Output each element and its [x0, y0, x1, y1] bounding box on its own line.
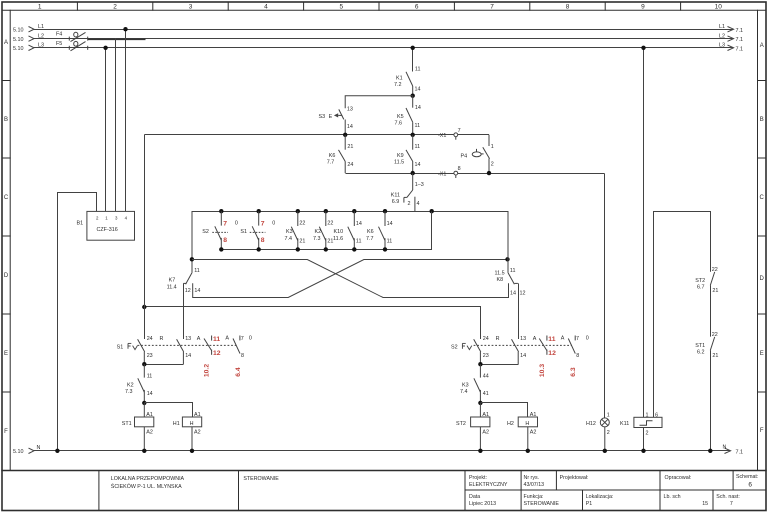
contact K1 7.2 — [406, 72, 413, 96]
svg-text:14: 14 — [415, 87, 421, 93]
svg-text:K2: K2 — [315, 229, 322, 235]
wire crossover W2 — [193, 260, 508, 298]
svg-text:7: 7 — [490, 4, 494, 11]
wire L3 — [34, 47, 733, 49]
node ST1 branch — [142, 401, 146, 405]
svg-text:15: 15 — [702, 501, 708, 507]
node P4-bus2 — [487, 171, 491, 175]
switch S2 contact 24-23 R — [474, 339, 481, 364]
lamp H12 — [600, 418, 609, 451]
svg-text:N: N — [723, 444, 727, 450]
svg-text:ELEKTRYCZNY: ELEKTRYCZNY — [469, 482, 508, 488]
node bus4 K6col — [383, 247, 387, 251]
switch S1 contact 13-14 A — [145, 339, 184, 364]
wire to S3 branch — [345, 96, 413, 109]
node K7 top — [190, 257, 194, 261]
svg-text:7.1: 7.1 — [736, 28, 744, 34]
svg-text:K3: K3 — [462, 382, 469, 388]
svg-text:1: 1 — [646, 412, 649, 418]
svg-text:A2: A2 — [194, 430, 201, 436]
svg-text:14: 14 — [347, 124, 353, 130]
frame numbers — [38, 4, 722, 11]
svg-text:43/07/13: 43/07/13 — [524, 482, 545, 488]
svg-text:K2: K2 — [127, 382, 134, 388]
svg-text:A: A — [4, 40, 8, 46]
wire bus 4 — [222, 212, 432, 250]
node N K11 — [641, 449, 645, 453]
svg-text:K1: K1 — [396, 76, 403, 82]
svg-text:0: 0 — [586, 335, 589, 341]
svg-text:K11: K11 — [620, 421, 629, 427]
svg-text:11.5: 11.5 — [495, 271, 505, 277]
svg-text:8: 8 — [566, 4, 570, 11]
contact K2 7.3 — [138, 364, 145, 403]
switch S2 linkage — [474, 344, 572, 346]
svg-text:6.9: 6.9 — [392, 199, 400, 205]
contact K8 11.5 changeover — [508, 273, 518, 339]
svg-text:5.10: 5.10 — [13, 28, 24, 34]
svg-text:22: 22 — [712, 332, 718, 338]
svg-text:Funkcja:: Funkcja: — [524, 494, 544, 500]
svg-text:A2: A2 — [482, 430, 489, 436]
svg-text:14: 14 — [194, 288, 200, 294]
svg-text:-X1: -X1 — [438, 171, 446, 177]
node S2 out — [478, 362, 482, 366]
switch P4 — [472, 135, 489, 173]
node bus3 S2col — [219, 209, 223, 213]
svg-text:S3: S3 — [319, 114, 326, 120]
svg-text:K9: K9 — [397, 153, 404, 159]
svg-text:K6: K6 — [329, 153, 336, 159]
svg-text:6.7: 6.7 — [697, 284, 705, 290]
svg-text:A2: A2 — [146, 430, 153, 436]
svg-text:12: 12 — [213, 350, 221, 357]
svg-text:Lipiec 2013: Lipiec 2013 — [469, 501, 496, 507]
svg-text:P1: P1 — [586, 501, 593, 507]
svg-text:22: 22 — [712, 267, 718, 273]
svg-text:3: 3 — [189, 4, 193, 11]
svg-text:L3: L3 — [38, 43, 44, 49]
node N ST1NC — [708, 449, 712, 453]
svg-text:11: 11 — [415, 66, 421, 72]
svg-text:Projektował:: Projektował: — [560, 475, 589, 481]
switch actuator S1 — [128, 343, 137, 349]
node bus4 S2col — [219, 247, 223, 251]
svg-text:6.3: 6.3 — [570, 367, 577, 377]
svg-text:10.2: 10.2 — [204, 364, 211, 377]
svg-text:21: 21 — [347, 144, 353, 150]
svg-text:ST2: ST2 — [456, 421, 466, 427]
switch S1 linkage — [138, 344, 237, 346]
svg-text:24: 24 — [483, 336, 489, 342]
fuse F4 — [69, 32, 87, 41]
node L3 tap K11 — [641, 46, 645, 50]
node bus5 left — [142, 305, 146, 309]
svg-text:6: 6 — [415, 4, 419, 11]
svg-text:7.3: 7.3 — [313, 236, 321, 242]
svg-text:K6: K6 — [367, 229, 374, 235]
svg-text:F: F — [760, 428, 764, 434]
arrow L3 left — [29, 45, 35, 50]
svg-text:H1: H1 — [173, 421, 180, 427]
svg-text:Sch. nast:: Sch. nast: — [716, 494, 740, 500]
svg-text:R: R — [160, 336, 164, 342]
svg-text:5.10: 5.10 — [13, 37, 24, 43]
svg-text:7.1: 7.1 — [736, 46, 744, 52]
svg-text:14: 14 — [185, 353, 191, 359]
contact S2 upper 7-8 — [212, 211, 228, 249]
svg-text:11: 11 — [548, 336, 555, 343]
svg-text:H2: H2 — [507, 421, 514, 427]
svg-text:C: C — [4, 195, 9, 201]
svg-text:B: B — [4, 117, 8, 123]
svg-text:S2: S2 — [202, 229, 209, 235]
arrow N right — [725, 448, 731, 453]
svg-text:Lokalizacja:: Lokalizacja: — [586, 494, 614, 500]
svg-text:7: 7 — [223, 220, 227, 227]
svg-text:L1: L1 — [719, 24, 725, 30]
svg-text:A: A — [533, 336, 537, 342]
contact ST1 6.2 — [710, 337, 714, 451]
svg-text:14: 14 — [520, 353, 526, 359]
svg-text:K11: K11 — [391, 193, 400, 199]
svg-text:44: 44 — [483, 374, 489, 380]
svg-text:8: 8 — [458, 166, 461, 172]
svg-text:L1: L1 — [38, 24, 44, 30]
svg-text:B1: B1 — [77, 221, 84, 227]
node N H12 — [603, 449, 607, 453]
wire bus 3 — [192, 211, 509, 213]
svg-text:1–3: 1–3 — [415, 182, 424, 188]
switch S2 stub 11-12 — [539, 336, 547, 355]
wire crossover W1 — [192, 260, 509, 298]
node N ST1 — [142, 449, 146, 453]
switch actuator S2 — [462, 343, 471, 349]
svg-text:7.7: 7.7 — [366, 236, 374, 242]
coil ST1 — [135, 403, 154, 451]
svg-text:2: 2 — [113, 4, 117, 11]
fuse F5 — [69, 41, 87, 50]
node bus3 K3col — [296, 209, 300, 213]
svg-text:8: 8 — [261, 237, 265, 244]
svg-text:E: E — [329, 114, 333, 120]
switch S2 contact 13-14 A — [481, 339, 519, 364]
wire B1 pin 2 to N rail — [58, 193, 97, 451]
svg-text:2: 2 — [607, 430, 610, 436]
svg-text:A1: A1 — [194, 412, 201, 418]
svg-text:5.10: 5.10 — [13, 46, 24, 52]
svg-text:21: 21 — [299, 238, 305, 244]
svg-text:10: 10 — [715, 4, 723, 11]
svg-text:2: 2 — [491, 162, 494, 168]
svg-text:ST1: ST1 — [695, 343, 705, 349]
svg-text:STEROWANIE: STEROWANIE — [524, 501, 560, 507]
switch S1 stub 7-8 — [233, 336, 240, 354]
svg-text:H: H — [525, 421, 529, 427]
node bus4 S1col — [257, 247, 261, 251]
wire bus 1 — [145, 134, 490, 136]
contact K3 7.4 — [474, 364, 481, 403]
contact K3 7.4 aux 22-21 — [291, 211, 298, 249]
svg-text:11.5: 11.5 — [394, 159, 404, 165]
svg-text:7: 7 — [730, 501, 733, 507]
svg-text:14: 14 — [415, 105, 421, 111]
wire K7 common riser — [191, 212, 193, 273]
node N H2 — [526, 449, 530, 453]
svg-text:24: 24 — [147, 336, 153, 342]
svg-text:11: 11 — [194, 268, 200, 274]
svg-text:11: 11 — [510, 268, 516, 274]
svg-text:7.3: 7.3 — [125, 389, 133, 395]
svg-text:1: 1 — [38, 4, 42, 11]
frame letters — [4, 40, 765, 435]
svg-text:H: H — [190, 421, 194, 427]
contact ST2 6.7 — [710, 272, 714, 337]
svg-text:6.4: 6.4 — [235, 367, 242, 377]
svg-text:L2: L2 — [719, 33, 725, 39]
svg-text:11: 11 — [415, 123, 421, 129]
svg-text:S1: S1 — [240, 229, 247, 235]
svg-text:8: 8 — [223, 237, 227, 244]
wire tap L2 to B1 pin 3 — [115, 39, 117, 212]
svg-text:0: 0 — [272, 221, 275, 227]
svg-text:14: 14 — [356, 221, 362, 227]
svg-text:S1: S1 — [117, 345, 124, 351]
svg-text:R: R — [496, 336, 500, 342]
svg-text:K10: K10 — [334, 229, 344, 235]
svg-text:L3: L3 — [719, 43, 725, 49]
svg-text:A: A — [760, 43, 764, 49]
svg-text:CZF-316: CZF-316 — [97, 227, 118, 233]
svg-text:14: 14 — [387, 221, 393, 227]
node K8 top — [505, 257, 509, 261]
svg-text:A2: A2 — [530, 430, 537, 436]
contact K6 7.7 — [339, 135, 346, 173]
svg-text:4: 4 — [264, 4, 268, 11]
wire L1 — [34, 29, 733, 31]
svg-text:N: N — [37, 445, 41, 451]
svg-text:LOKALNA PRZEPOMPOWNIA: LOKALNA PRZEPOMPOWNIA — [111, 476, 185, 482]
contact K11 6.9 changeover — [404, 173, 415, 211]
wire bus 2 — [346, 173, 605, 175]
svg-text:ST2: ST2 — [695, 278, 705, 284]
svg-text:F4: F4 — [56, 32, 62, 38]
svg-text:Projekt:: Projekt: — [469, 475, 487, 481]
svg-text:7.4: 7.4 — [460, 389, 468, 395]
svg-text:11: 11 — [356, 238, 362, 244]
wire S1 R column from bus1 — [144, 135, 146, 340]
contact K9 11.5 — [406, 135, 413, 173]
svg-text:K8: K8 — [497, 277, 504, 283]
svg-text:1: 1 — [607, 412, 610, 418]
svg-text:8: 8 — [241, 353, 244, 359]
wire L2 emphasized segment — [88, 38, 146, 40]
contact K7 11.4 changeover — [183, 273, 192, 339]
arrow L2 left — [29, 36, 35, 41]
terminal X1-8 — [454, 171, 458, 178]
relay coil K11 impulse — [634, 417, 662, 451]
svg-text:7: 7 — [458, 128, 461, 134]
svg-text:K5: K5 — [397, 114, 404, 120]
svg-text:11.4: 11.4 — [167, 284, 177, 290]
svg-text:7.7: 7.7 — [327, 159, 335, 165]
node K1 out — [411, 94, 415, 98]
svg-text:41: 41 — [483, 391, 489, 397]
svg-text:14: 14 — [415, 162, 421, 168]
contact K5 7.6 — [406, 96, 413, 135]
svg-text:Data: Data — [469, 494, 480, 500]
terminal X1-7 — [454, 133, 458, 140]
svg-text:2: 2 — [646, 430, 649, 436]
svg-text:A: A — [197, 336, 201, 342]
node N H1 — [190, 449, 194, 453]
svg-text:7.6: 7.6 — [395, 120, 403, 126]
contact S3 emergency stop — [334, 109, 345, 134]
svg-text:A: A — [225, 335, 229, 341]
TITLE BLOCK — [2, 471, 766, 511]
B1 pin numbers — [96, 216, 128, 221]
svg-text:P4: P4 — [461, 153, 468, 159]
svg-text:12: 12 — [185, 288, 191, 294]
svg-text:8: 8 — [576, 353, 579, 359]
wire L3 tap to K11 coil — [643, 48, 645, 418]
wire K8 common riser — [507, 212, 509, 273]
svg-text:6: 6 — [655, 412, 658, 418]
switch S2 stub 7-8 — [568, 336, 575, 354]
svg-text:7: 7 — [576, 336, 579, 342]
svg-text:A: A — [561, 335, 565, 341]
svg-text:S2: S2 — [451, 345, 458, 351]
svg-text:L2: L2 — [38, 33, 44, 39]
svg-text:6.2: 6.2 — [697, 349, 705, 355]
svg-text:STEROWANIE: STEROWANIE — [243, 476, 279, 482]
node control feed — [411, 46, 415, 50]
node bus4 K10col — [352, 247, 356, 251]
svg-text:22: 22 — [327, 221, 333, 227]
svg-text:A1: A1 — [146, 412, 153, 418]
svg-text:1: 1 — [491, 144, 494, 150]
svg-text:14: 14 — [510, 290, 516, 296]
svg-text:23: 23 — [483, 353, 489, 359]
arrow N left — [29, 448, 35, 453]
svg-text:Schemat:: Schemat: — [736, 474, 758, 480]
svg-text:Nr rys.: Nr rys. — [524, 475, 540, 481]
node bus3 K6col — [383, 209, 387, 213]
arrow L1 right — [728, 27, 734, 32]
node L1 tap — [123, 27, 127, 31]
svg-text:K3: K3 — [286, 229, 293, 235]
svg-text:11: 11 — [415, 144, 421, 150]
svg-text:11.6: 11.6 — [333, 236, 343, 242]
wire tap L3 to B1 pin 1 — [105, 48, 107, 212]
node bus3 S1col — [257, 209, 261, 213]
node S1 out — [142, 362, 146, 366]
svg-text:11: 11 — [213, 336, 220, 343]
svg-text:9: 9 — [641, 4, 645, 11]
switch S1 contact 24-23 R — [138, 339, 145, 364]
node bus3 K2col — [324, 209, 328, 213]
node N ST2 — [478, 449, 482, 453]
svg-text:23: 23 — [147, 353, 153, 359]
schematic labels — [13, 24, 743, 456]
svg-text:C: C — [760, 195, 765, 201]
svg-text:2: 2 — [408, 201, 411, 207]
phase monitor B1 CZF-316 — [87, 211, 135, 240]
node K9-bus2 — [411, 171, 415, 175]
svg-text:11: 11 — [147, 374, 153, 380]
svg-text:0: 0 — [235, 221, 238, 227]
wire bus 5 — [145, 307, 481, 340]
svg-text:Lb. sch: Lb. sch — [664, 494, 681, 500]
svg-text:7: 7 — [241, 336, 244, 342]
svg-text:F: F — [4, 429, 8, 435]
svg-text:13: 13 — [520, 336, 526, 342]
svg-text:22: 22 — [299, 221, 305, 227]
svg-text:A1: A1 — [482, 412, 489, 418]
contact K6 7.7 aux 14-11 — [379, 211, 386, 249]
svg-text:F5: F5 — [56, 41, 62, 47]
svg-text:5: 5 — [339, 4, 343, 11]
node bus3 K10col — [352, 209, 356, 213]
svg-text:21: 21 — [712, 353, 718, 359]
wire K11 pin6 to ST contacts — [654, 212, 711, 418]
arrow L1 left — [29, 27, 35, 32]
node L3 tap — [103, 46, 107, 50]
node bus4 K3col — [296, 247, 300, 251]
node K5-bus1 — [411, 133, 415, 137]
node ST2 branch — [478, 401, 482, 405]
node S3-bus1 — [343, 133, 347, 137]
wire L2 — [34, 38, 733, 40]
svg-text:-X1: -X1 — [438, 133, 446, 139]
title block text — [111, 474, 759, 507]
svg-text:12: 12 — [520, 290, 526, 296]
coil H1 — [145, 403, 202, 451]
svg-text:D: D — [4, 273, 9, 279]
arrow L2 right — [728, 36, 734, 41]
svg-text:7: 7 — [261, 220, 265, 227]
svg-text:4: 4 — [417, 201, 420, 207]
contact K2 7.3 aux 22-21 — [319, 211, 326, 249]
svg-text:7.4: 7.4 — [285, 236, 293, 242]
svg-text:21: 21 — [712, 288, 718, 294]
switch S1 stub 11-12 — [204, 336, 212, 355]
svg-text:7.2: 7.2 — [394, 82, 402, 88]
arrow L3 right — [728, 45, 734, 50]
coil ST2 — [471, 403, 490, 451]
svg-text:K7: K7 — [169, 278, 176, 284]
svg-text:D: D — [760, 276, 765, 282]
svg-text:7.1: 7.1 — [736, 37, 744, 43]
svg-text:0: 0 — [249, 335, 252, 341]
wire control feed from L3 to K1 — [412, 48, 414, 72]
coil H2 — [481, 403, 538, 451]
node bus4 K2col — [324, 247, 328, 251]
svg-text:12: 12 — [548, 350, 556, 357]
wire N — [34, 450, 730, 452]
svg-text:E: E — [4, 351, 8, 357]
svg-text:10.3: 10.3 — [539, 364, 546, 377]
svg-text:ST1: ST1 — [122, 421, 132, 427]
svg-text:H12: H12 — [586, 421, 596, 427]
svg-text:24: 24 — [347, 162, 353, 168]
svg-text:A1: A1 — [530, 412, 537, 418]
node N B1 — [55, 449, 59, 453]
node bus3 riser — [430, 209, 434, 213]
svg-text:6: 6 — [748, 482, 752, 489]
svg-text:13: 13 — [185, 336, 191, 342]
contact S1 upper 7-8 — [250, 211, 266, 249]
